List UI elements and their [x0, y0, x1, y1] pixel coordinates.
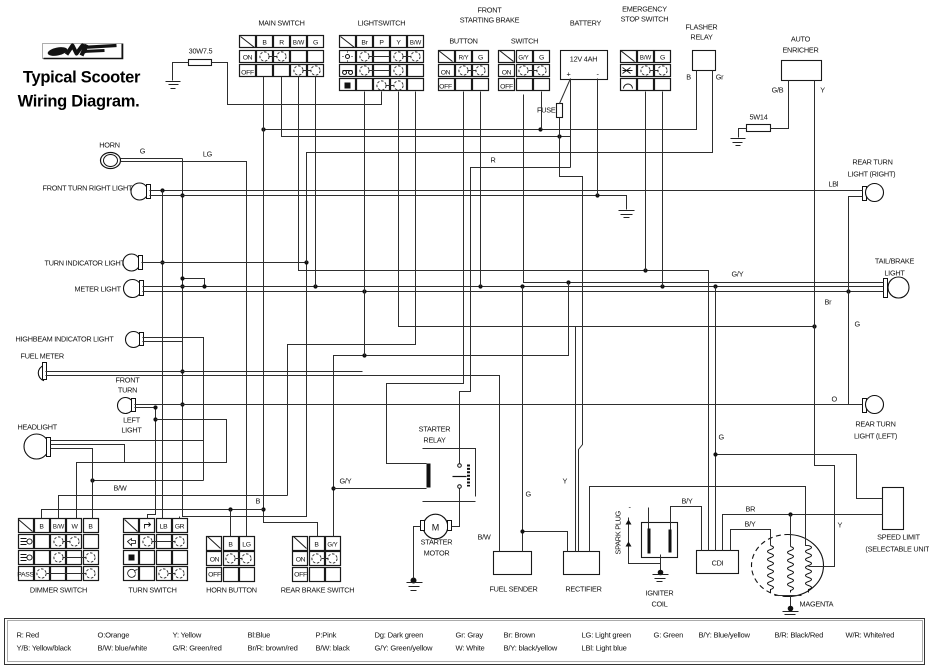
- ground (30W7.5): [166, 82, 181, 89]
- svg-text:TAIL/BRAKE: TAIL/BRAKE: [875, 257, 915, 266]
- svg-text:MAGENTA: MAGENTA: [800, 600, 834, 609]
- ground (5W14): [731, 139, 746, 146]
- wire: front turn right lower to G vertical and ground branch bus: [150, 193, 627, 209]
- svg-text:HORN BUTTON: HORN BUTTON: [206, 586, 257, 595]
- turn indicator light: [123, 254, 143, 271]
- svg-text:REAR TURN: REAR TURN: [855, 420, 895, 429]
- wire: rear turn right lower lead: [849, 197, 863, 292]
- svg-text:AUTO: AUTO: [791, 35, 811, 44]
- igniter coil: [642, 508, 678, 572]
- svg-text:STOP SWITCH: STOP SWITCH: [621, 15, 669, 24]
- ground (starter motor): [407, 578, 423, 591]
- svg-text:R: R: [279, 40, 284, 47]
- wire: LBl bus front turn right to rear turn right: [150, 188, 863, 192]
- light switch table: [340, 36, 424, 91]
- wire: highbeam leads: [143, 338, 204, 481]
- igniter coil label: [646, 589, 674, 609]
- wire: fuel meter upper lead: [46, 371, 363, 373]
- svg-text:Br: Br: [825, 298, 833, 307]
- svg-text:12V 4AH: 12V 4AH: [570, 55, 597, 64]
- wire: R battery to starter relay contact: [460, 168, 571, 464]
- svg-text:Y/B: Yellow/black: Y/B: Yellow/black: [17, 644, 72, 653]
- svg-text:HEADLIGHT: HEADLIGHT: [18, 423, 58, 432]
- svg-text:STARTER: STARTER: [419, 425, 451, 434]
- speed limit unit: [883, 488, 904, 530]
- svg-text:Dg: Dark green: Dg: Dark green: [375, 631, 424, 640]
- wire: LG horn to horn button: [183, 162, 247, 537]
- svg-text:G/B: G/B: [772, 86, 784, 95]
- svg-text:RECTIFIER: RECTIFIER: [565, 585, 601, 594]
- svg-text:G/R: Green/red: G/R: Green/red: [173, 644, 222, 653]
- wire: starter motor to ground: [414, 527, 421, 579]
- svg-text:FUEL SENDER: FUEL SENDER: [489, 585, 537, 594]
- svg-text:G: G: [140, 147, 146, 156]
- svg-text:BATTERY: BATTERY: [570, 19, 602, 28]
- rear brake switch table: [293, 537, 341, 582]
- wire: front brake button G column: [480, 92, 482, 287]
- svg-text:B/W: B/W: [293, 40, 305, 47]
- svg-text:Y: Yellow: Y: Yellow: [173, 631, 202, 640]
- wire: G/B enricher lead: [788, 81, 790, 129]
- svg-text:G: G: [660, 55, 665, 62]
- wire: B/W bus headlight dimmer: [59, 496, 288, 519]
- auto enricher label: [782, 35, 818, 55]
- svg-text:ENRICHER: ENRICHER: [782, 46, 818, 55]
- svg-text:LIGHT (RIGHT): LIGHT (RIGHT): [848, 170, 896, 179]
- svg-text:DIMMER SWITCH: DIMMER SWITCH: [30, 586, 87, 595]
- svg-text:R/Y: R/Y: [459, 55, 469, 62]
- wire 30W7.5 to lightswitch P column: [212, 63, 382, 105]
- svg-text:REAR BRAKE SWITCH: REAR BRAKE SWITCH: [281, 586, 355, 595]
- wire: BR branch to magneto centre coil: [790, 515, 792, 547]
- svg-text:FLASHER: FLASHER: [686, 23, 718, 32]
- legend text row 2: [17, 644, 627, 653]
- svg-text:STARTING BRAKE: STARTING BRAKE: [460, 16, 520, 25]
- svg-text:OFF: OFF: [208, 572, 221, 579]
- label LEFT LIGHT: [121, 416, 142, 435]
- turn switch table: [124, 519, 188, 581]
- svg-text:MAIN SWITCH: MAIN SWITCH: [258, 19, 304, 28]
- svg-text:W: White: W: White: [456, 644, 485, 653]
- battery 12V 4AH: [561, 51, 608, 80]
- fuel meter: [38, 363, 46, 381]
- wire: G CDI junction to speed limit: [713, 287, 882, 551]
- wire: O bus front turn left to rear turn left: [135, 404, 863, 406]
- wire: Br bus meter light to tail light: [143, 289, 884, 293]
- svg-text:G/Y: G/Y: [327, 542, 337, 549]
- horn: [101, 153, 121, 169]
- svg-text:B/W: blue/white: B/W: blue/white: [98, 644, 148, 653]
- wire: horn button B column: [230, 510, 232, 537]
- starter relay: [423, 449, 476, 502]
- svg-text:LIGHT: LIGHT: [121, 426, 142, 435]
- ground (magneto): [783, 606, 799, 619]
- wire: main switch B column: [261, 77, 317, 537]
- wire: emergency stop G column: [662, 92, 664, 287]
- svg-text:M: M: [432, 523, 440, 533]
- front turn left light label: [116, 376, 141, 395]
- svg-text:LB: LB: [160, 524, 168, 531]
- wire: headlight lead 2: [51, 445, 125, 463]
- svg-text:LG: LG: [203, 150, 213, 159]
- wire: turn signal LB vertical: [160, 191, 164, 519]
- svg-text:SPEED LIMIT: SPEED LIMIT: [877, 533, 920, 542]
- svg-text:G: G: [855, 320, 861, 329]
- wire: lightswitch Br column: [364, 92, 366, 356]
- svg-text:FUEL METER: FUEL METER: [21, 352, 64, 361]
- dimmer switch table: [17, 519, 98, 581]
- svg-text:METER LIGHT: METER LIGHT: [75, 285, 122, 294]
- svg-text:W: W: [71, 524, 78, 531]
- svg-text:REAR TURN: REAR TURN: [852, 158, 892, 167]
- svg-text:LG: LG: [242, 542, 250, 549]
- svg-text:O:Orange: O:Orange: [98, 631, 130, 640]
- meter light: [124, 280, 144, 298]
- svg-text:MOTOR: MOTOR: [424, 549, 450, 558]
- wire: emergency stop B/W column: [645, 92, 647, 271]
- svg-text:LIGHT: LIGHT: [884, 269, 905, 278]
- svg-text:SWITCH: SWITCH: [511, 37, 538, 46]
- wire: turn indicator to flasher vertical: [142, 260, 309, 264]
- svg-text:B/W: B/W: [114, 484, 127, 493]
- svg-text:B: B: [256, 497, 261, 506]
- speed limit label: [865, 533, 929, 554]
- wire: flasher B bus: [261, 71, 696, 132]
- svg-text:IGNITER: IGNITER: [646, 589, 674, 598]
- svg-text:B/Y: black/yellow: B/Y: black/yellow: [504, 644, 558, 653]
- resistor 30W7.5: [173, 47, 213, 81]
- svg-text:W/R: White/red: W/R: White/red: [846, 631, 895, 640]
- tail/brake light: [884, 277, 910, 298]
- wire: flasher Gr bus: [307, 71, 713, 263]
- svg-text:ON: ON: [502, 70, 512, 77]
- svg-text:B/W: black: B/W: black: [316, 644, 351, 653]
- wire: fuel meter lower lead to fuel sender: [46, 376, 500, 552]
- svg-text:Br/R: brown/red: Br/R: brown/red: [248, 644, 298, 653]
- svg-text:HORN: HORN: [99, 141, 120, 150]
- wire: G bus meter light to tail light: [143, 276, 884, 288]
- starter motor label: [421, 538, 453, 558]
- svg-text:G/Y: Green/yellow: G/Y: Green/yellow: [375, 644, 434, 653]
- wire: B/Y igniter to CDI: [671, 507, 702, 551]
- CDI: [697, 551, 739, 574]
- wire: auto enricher Y to magneto: [809, 81, 835, 567]
- wire: front brake switch G column: [541, 92, 543, 130]
- rear turn light (left) label: [854, 420, 897, 441]
- wire: G/Y branch to rear brake switch: [331, 283, 568, 537]
- svg-text:G: G: [313, 40, 318, 47]
- svg-text:Y: Y: [563, 477, 568, 486]
- spark plug: [626, 503, 661, 564]
- auto enricher: [782, 61, 822, 81]
- wire: G/Y to starter relay coil: [334, 488, 427, 490]
- svg-text:STARTER: STARTER: [421, 538, 453, 547]
- svg-text:P:Pink: P:Pink: [316, 631, 337, 640]
- rear turn light (left): [863, 396, 884, 414]
- svg-text:G: G: [526, 490, 532, 499]
- svg-text:PASS: PASS: [17, 572, 34, 579]
- legend box: [5, 619, 925, 665]
- svg-text:RELAY: RELAY: [423, 436, 446, 445]
- tail/brake light label: [875, 257, 915, 278]
- svg-text:B/R: Black/Red: B/R: Black/Red: [775, 631, 824, 640]
- svg-text:B: B: [686, 73, 691, 82]
- rear turn light (right): [863, 184, 884, 202]
- wire: lightswitch Y column to Y bus: [399, 92, 817, 329]
- svg-text:LIGHT (LEFT): LIGHT (LEFT): [854, 432, 897, 441]
- svg-text:R: R: [491, 156, 496, 165]
- svg-text:Bl:Blue: Bl:Blue: [248, 631, 271, 640]
- svg-text:HIGHBEAM INDICATOR LIGHT: HIGHBEAM INDICATOR LIGHT: [16, 335, 115, 344]
- svg-text:OFF: OFF: [241, 70, 254, 77]
- flasher relay: [693, 51, 716, 71]
- rectifier: [564, 552, 600, 575]
- wire: battery minus to ground junction: [597, 79, 599, 196]
- wire: Y bus to rectifier: [575, 327, 577, 552]
- fuel sender: [494, 552, 532, 575]
- svg-text:Br: Brown: Br: Brown: [504, 631, 536, 640]
- wire: front brake button R/Y to relay coil: [387, 92, 464, 464]
- logo box top-left: [43, 44, 123, 59]
- svg-text:COIL: COIL: [651, 600, 667, 609]
- svg-text:G/Y: G/Y: [518, 55, 528, 62]
- svg-text:O: O: [832, 395, 838, 404]
- wire: fuse lower lead to rectifier: [560, 118, 583, 552]
- wire: G tail light branch to rear turn left: [848, 292, 850, 405]
- svg-text:30W7.5: 30W7.5: [189, 47, 213, 56]
- resistor 5W14: [739, 81, 789, 138]
- svg-text:B/Y: B/Y: [745, 520, 756, 529]
- wire: fuel sender G to rectifier: [520, 287, 567, 552]
- wire: B/Y CDI to magneto left coil: [731, 530, 771, 551]
- svg-text:Gr: Gr: [716, 73, 724, 82]
- svg-text:FRONT: FRONT: [116, 376, 141, 385]
- front turn right light: [131, 183, 151, 200]
- wire: main switch B/W column to CDI: [299, 77, 709, 551]
- wire: relay contact to starter motor: [452, 489, 460, 527]
- ground (igniter coil): [653, 570, 669, 582]
- magneto (MAGENTA): [752, 535, 824, 609]
- wire: W/R rectifier to magneto right coil: [590, 487, 809, 552]
- fuse: [537, 79, 570, 118]
- svg-text:Gr: Gray: Gr: Gray: [456, 631, 484, 640]
- svg-text:Y: Y: [820, 86, 825, 95]
- svg-text:B/W: B/W: [640, 55, 652, 62]
- emergency stop switch table: [621, 51, 671, 91]
- svg-text:Typical Scooter: Typical Scooter: [23, 69, 141, 87]
- svg-text:FUSE: FUSE: [537, 106, 556, 115]
- svg-text:B/Y: B/Y: [682, 497, 693, 506]
- headlight: [24, 434, 51, 459]
- front brake switch table: [499, 51, 550, 91]
- front turn left light: [118, 398, 136, 414]
- wire: G/Y brake bus to tail light: [524, 95, 884, 285]
- rear turn light (right) label: [848, 158, 896, 179]
- svg-text:G/Y: G/Y: [340, 477, 352, 486]
- svg-text:G: Green: G: Green: [654, 631, 684, 640]
- starter motor: [421, 514, 452, 539]
- svg-text:OFF: OFF: [294, 572, 307, 579]
- svg-text:G/Y: G/Y: [732, 270, 744, 279]
- svg-text:G: G: [539, 55, 544, 62]
- svg-text:G: G: [719, 433, 725, 442]
- svg-text:R: Red: R: Red: [17, 631, 39, 640]
- svg-text:Br: Br: [361, 40, 368, 47]
- svg-text:LBl: Light blue: LBl: Light blue: [582, 644, 627, 653]
- svg-text:ON: ON: [296, 557, 306, 564]
- svg-text:BUTTON: BUTTON: [449, 37, 477, 46]
- title text: [18, 69, 141, 111]
- front brake button table: [439, 51, 489, 91]
- svg-text:LEFT: LEFT: [123, 416, 141, 425]
- wire: headlight lead 1: [51, 441, 204, 483]
- legend text row 1: [17, 631, 895, 640]
- svg-text:TURN: TURN: [118, 386, 137, 395]
- wire: lightswitch B/W column to B/W bus: [288, 92, 416, 496]
- svg-text:Wiring Diagram.: Wiring Diagram.: [18, 93, 140, 111]
- starter relay label: [419, 425, 451, 445]
- front starting brake label: [460, 6, 520, 25]
- wire: G common vertical: [180, 159, 307, 519]
- svg-text:+: +: [567, 70, 571, 79]
- svg-text:ON: ON: [441, 70, 451, 77]
- svg-text:BR: BR: [746, 505, 756, 514]
- wire: main switch G column: [315, 77, 317, 287]
- highbeam indicator light: [126, 332, 144, 348]
- svg-text:B/Y: Blue/yellow: B/Y: Blue/yellow: [699, 631, 751, 640]
- svg-text:B/W: B/W: [478, 533, 491, 542]
- svg-text:ON: ON: [243, 55, 253, 62]
- svg-text:CDI: CDI: [712, 559, 724, 568]
- wire: horn to G vertical: [121, 159, 183, 162]
- main switch table: [240, 36, 324, 77]
- svg-text:LBl: LBl: [829, 180, 839, 189]
- svg-text:TURN SWITCH: TURN SWITCH: [128, 586, 176, 595]
- svg-text:B/W: B/W: [410, 40, 422, 47]
- wire: headlight lead 3: [51, 449, 93, 519]
- wire: front turn left lower lead: [135, 405, 158, 518]
- svg-text:B/W: B/W: [53, 524, 65, 531]
- svg-text:5W14: 5W14: [749, 113, 767, 122]
- svg-text:RELAY: RELAY: [690, 33, 713, 42]
- svg-text:LG: Light green: LG: Light green: [582, 631, 631, 640]
- ground (battery minus): [619, 211, 635, 218]
- wire: BR bus CDI to speed limit: [723, 512, 883, 550]
- wire: link front turn left to headlight loop: [77, 420, 227, 519]
- emergency stop switch label: [621, 5, 669, 24]
- svg-text:SPARK PLUG: SPARK PLUG: [614, 510, 623, 554]
- svg-text:G: G: [478, 55, 483, 62]
- svg-text:LIGHTSWITCH: LIGHTSWITCH: [358, 19, 406, 28]
- svg-text:FRONT: FRONT: [478, 6, 503, 15]
- svg-text:Y: Y: [838, 521, 843, 530]
- svg-text:EMERGENCY: EMERGENCY: [622, 5, 667, 14]
- svg-text:ON: ON: [210, 557, 220, 564]
- svg-text:(SELECTABLE UNIT): (SELECTABLE UNIT): [865, 545, 929, 554]
- svg-text:TURN INDICATOR LIGHT: TURN INDICATOR LIGHT: [45, 259, 126, 268]
- svg-text:OFF: OFF: [500, 84, 513, 91]
- svg-text:GR: GR: [175, 524, 185, 531]
- flasher relay label: [686, 23, 718, 42]
- wire: main switch R column to fuse bus: [282, 77, 571, 168]
- svg-text:OFF: OFF: [439, 84, 452, 91]
- svg-text:FRONT TURN RIGHT LIGHT: FRONT TURN RIGHT LIGHT: [43, 184, 134, 193]
- wire: B bus: [42, 507, 264, 518]
- horn button table: [207, 537, 255, 582]
